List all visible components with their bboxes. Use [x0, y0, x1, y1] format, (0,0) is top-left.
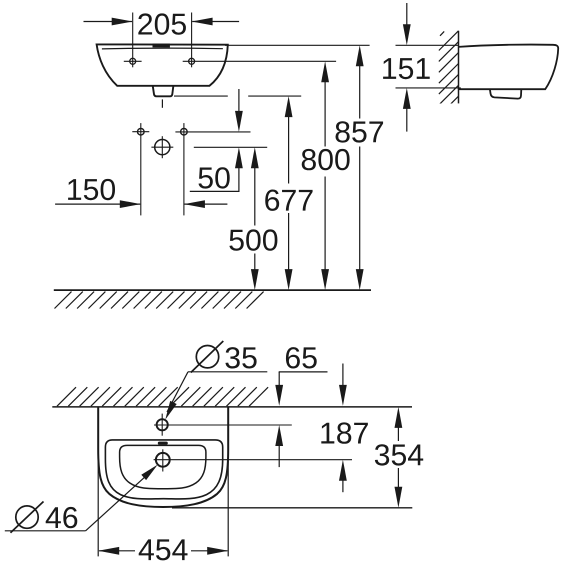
- tap hole plan: [157, 419, 168, 430]
- leader 35 line+arrow: [167, 372, 188, 412]
- dim 205: [84, 21, 133, 23]
- basin front view outline: [97, 44, 228, 85]
- trap centre line: [161, 99, 163, 107]
- ground line front view: [54, 289, 371, 291]
- dim 50 lower arrow: [235, 147, 243, 168]
- basin plan outer outline: [98, 407, 228, 507]
- label diameter 35: [196, 346, 218, 368]
- dim 205 extension lines: [132, 13, 134, 68]
- dim 150: [55, 203, 140, 205]
- tap hole row / dim 65 extension: [154, 424, 292, 426]
- dim 151: [406, 3, 408, 27]
- basin side view outline: [459, 45, 559, 90]
- wall fixing hole left: [138, 128, 145, 135]
- dim 50 upper arrow: [238, 89, 240, 113]
- dim 354: [395, 407, 403, 428]
- dim 187: [342, 364, 344, 387]
- pipe row line: [194, 146, 267, 148]
- dim 151 extension lines: [396, 44, 459, 46]
- dim 857 extension: [225, 44, 370, 46]
- wall fixing hole right: [181, 128, 188, 135]
- overflow slot front: [153, 44, 170, 48]
- dim 65: [286, 347, 300, 368]
- dim 454 extension lines: [97, 407, 99, 557]
- dim 500: [251, 147, 259, 168]
- dim 800 extension: [183, 60, 336, 62]
- leader 46 shelf: [5, 530, 86, 532]
- leader 35 shelf: [188, 371, 267, 373]
- dim 150 extension lines: [140, 123, 142, 215]
- side view wall line: [458, 31, 460, 104]
- fixing hole row line: [175, 131, 250, 133]
- drain hole plan: [156, 453, 170, 467]
- label diameter 46: [16, 506, 38, 528]
- front edge extension line (354): [172, 507, 412, 509]
- drain row / dim 187 extension: [154, 459, 352, 461]
- plan wall line: [52, 406, 412, 408]
- plan wall hatching: [57, 387, 76, 406]
- supply pipe circle: [155, 140, 170, 155]
- leader 46 line+arrow: [86, 471, 151, 530]
- ground hatching: [55, 292, 72, 309]
- overflow slot plan: [158, 442, 168, 445]
- dim 800: [321, 61, 329, 82]
- basin plan bowl outline: [120, 445, 206, 488]
- side view wall hatching: [439, 31, 459, 116]
- basin plan rim outline: [105, 440, 222, 499]
- trap front view: [153, 86, 174, 96]
- dim 677 extension (trap bottom): [174, 95, 228, 97]
- basin front rim inner line: [102, 47, 223, 50]
- dim 50 shelf: [190, 190, 240, 192]
- right tap hole front: [189, 58, 195, 64]
- dim 454: [99, 550, 135, 552]
- trap side view bump: [490, 89, 521, 98]
- dim 677: [285, 96, 293, 117]
- left tap hole front: [130, 58, 136, 64]
- dim 857: [356, 45, 364, 66]
